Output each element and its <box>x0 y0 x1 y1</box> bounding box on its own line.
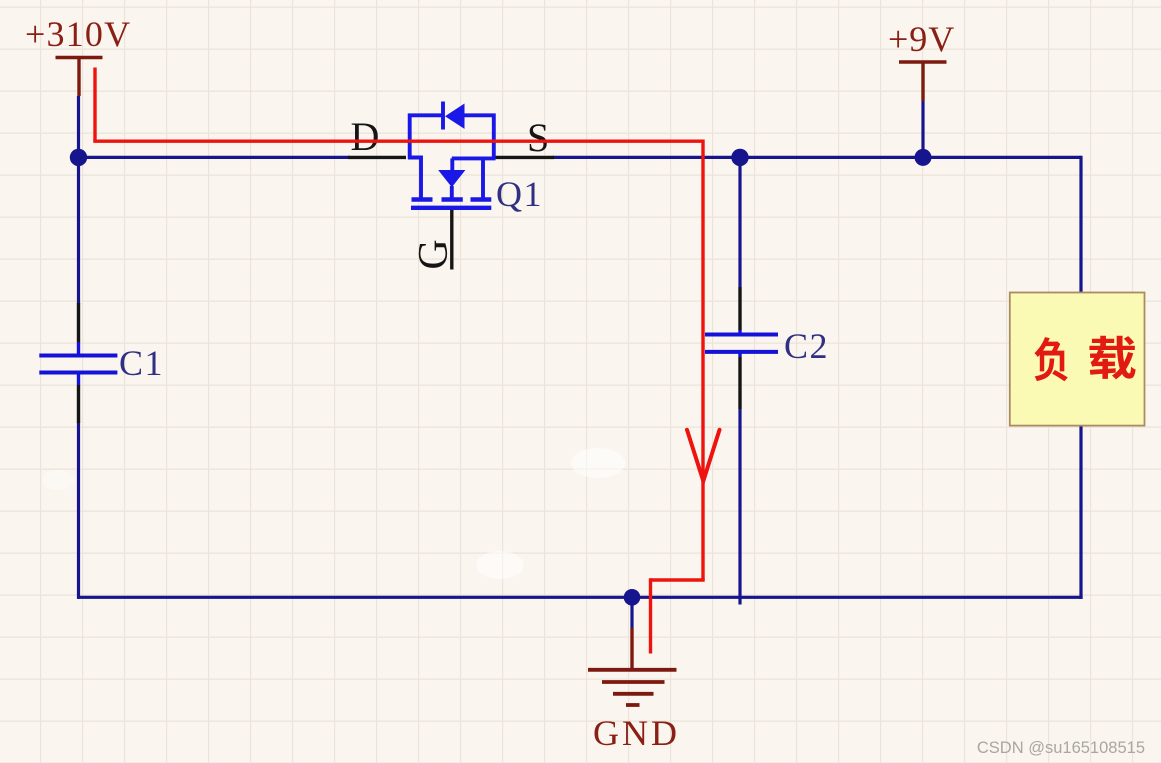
C2 stub lower <box>738 352 741 357</box>
C2 pin lower <box>738 357 741 409</box>
Q1 channel bar right <box>471 197 492 201</box>
power +310V stub <box>77 58 80 97</box>
GND bar 2 <box>602 680 665 684</box>
red current arrowhead <box>687 430 720 481</box>
junction node C2 <box>731 149 748 166</box>
Q1 gate lead <box>450 210 453 270</box>
svg-text:D: D <box>351 114 380 159</box>
wire right vertical upper <box>1079 156 1082 293</box>
junction node GND <box>624 589 641 606</box>
svg-text:C1: C1 <box>119 343 164 383</box>
svg-text:C2: C2 <box>784 326 829 366</box>
wire top horizontal right <box>553 156 1081 159</box>
GND bar 1 <box>588 668 677 672</box>
load box <box>1010 293 1145 426</box>
wire right vertical lower <box>1079 425 1082 599</box>
Q1 body diode triangle <box>445 104 465 129</box>
red current path bottom jog horizontal <box>651 578 705 581</box>
svg-text:GND: GND <box>593 713 680 753</box>
red current path bottom vertical <box>649 578 652 653</box>
Q1 body arrow stem lower <box>450 186 454 198</box>
GND bar 4 <box>626 703 640 707</box>
wire C2 branch upper <box>738 157 741 287</box>
red current path start vertical <box>93 68 96 142</box>
svg-text:CSDN @su165108515: CSDN @su165108515 <box>977 739 1145 757</box>
artifact blob 3 <box>42 470 74 490</box>
Q1 channel bar middle <box>442 197 463 201</box>
C1 plate lower <box>39 371 117 375</box>
load text 载 <box>1089 336 1135 380</box>
svg-text:G: G <box>411 239 457 269</box>
C1 plate upper <box>39 354 117 358</box>
Q1 source stub <box>481 158 485 197</box>
power +9V bar <box>899 60 947 63</box>
wire left vertical lower <box>77 422 80 599</box>
C1 stub upper <box>77 342 80 356</box>
C1 pin lower <box>77 385 80 423</box>
GND stub maroon <box>630 628 633 670</box>
wire top horizontal left <box>79 156 351 159</box>
load text 负 <box>1034 337 1067 381</box>
junction node left <box>70 149 87 166</box>
C1 pin upper <box>77 303 80 342</box>
GND bar 3 <box>613 692 654 696</box>
junction node +9V <box>915 149 932 166</box>
C2 stub upper <box>738 330 741 335</box>
Q1 channel bar left <box>412 197 433 201</box>
svg-text:+310V: +310V <box>25 14 131 54</box>
wire C2 branch lower <box>738 409 741 605</box>
Q1 drain stub <box>408 158 421 198</box>
Q1 body diode loop <box>410 115 494 159</box>
artifact blob 1 <box>571 448 625 478</box>
svg-text:Q1: Q1 <box>496 174 543 214</box>
svg-text:S: S <box>527 115 549 160</box>
C2 pin upper <box>738 287 741 330</box>
Q1 source connector <box>452 156 496 160</box>
Q1 source pin <box>495 156 554 159</box>
Q1 body diode cathode bar <box>441 102 445 130</box>
Q1 drain pin <box>348 156 406 159</box>
power +9V stub <box>921 62 924 101</box>
wire left vertical <box>77 96 80 304</box>
C2 plate lower <box>705 350 778 354</box>
artifact blob 2 <box>476 551 524 579</box>
wire bottom horizontal <box>77 596 1083 599</box>
wire GND stub <box>630 597 633 628</box>
red current path right vertical <box>701 140 704 581</box>
Q1 body arrow stem upper <box>450 158 454 170</box>
C2 plate upper <box>705 333 778 337</box>
C1 stub lower <box>77 373 80 386</box>
wire +9V branch <box>921 101 924 157</box>
Q1 body arrow <box>438 170 465 187</box>
red current path top horizontal <box>93 139 703 142</box>
power +310V bar <box>56 56 103 59</box>
svg-text:+9V: +9V <box>888 19 955 59</box>
Q1 gate plate <box>411 206 491 210</box>
